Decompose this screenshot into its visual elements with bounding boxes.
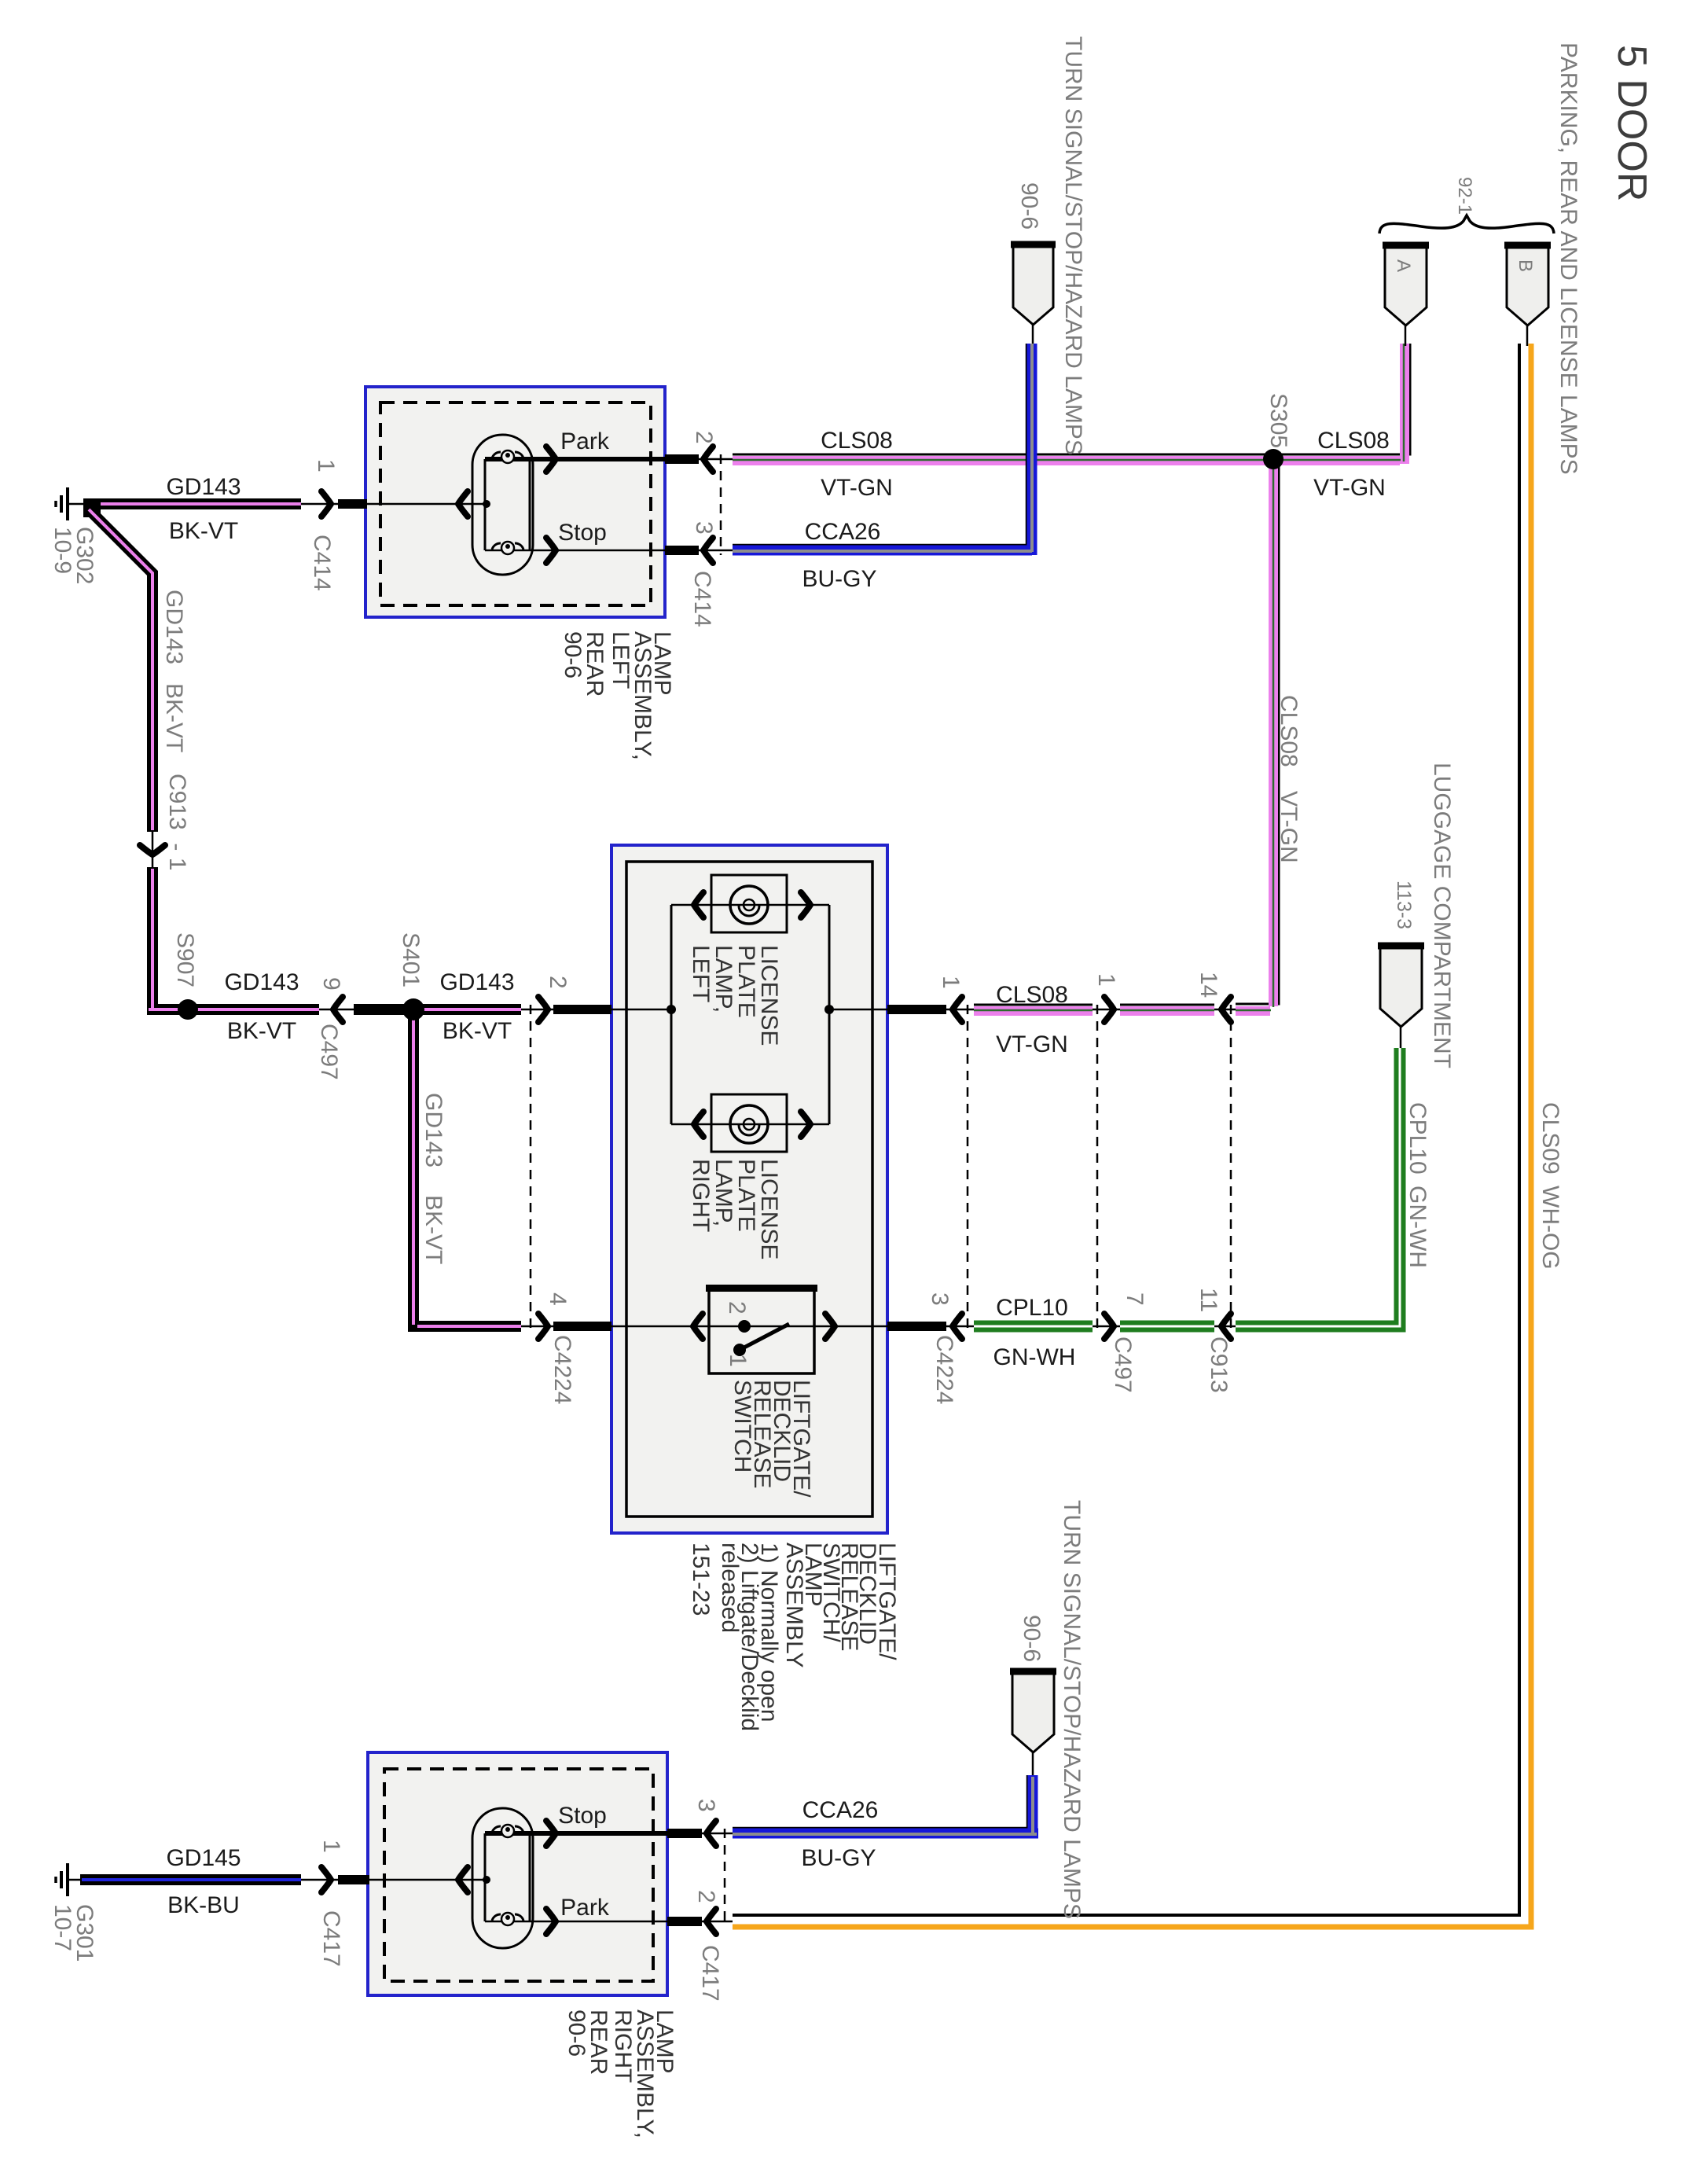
svg-text:C497: C497 <box>316 1024 342 1080</box>
license plate lamp left bulb <box>671 875 829 932</box>
dashed boundary C913 <box>1230 1005 1232 1331</box>
connector A <box>1383 245 1429 346</box>
wire CLS08 VT-GN from liftgate pin 1 to C497 <box>946 1005 1093 1011</box>
svg-text:2: 2 <box>691 431 717 444</box>
svg-text:S907: S907 <box>172 932 198 987</box>
svg-text:WH-OG: WH-OG <box>1537 1186 1563 1270</box>
svg-text:GN-WH: GN-WH <box>993 1344 1076 1370</box>
svg-text:C913: C913 <box>1206 1337 1232 1393</box>
svg-text:1: 1 <box>318 1840 344 1853</box>
svg-text:C4224: C4224 <box>549 1335 575 1404</box>
svg-text:CCA26: CCA26 <box>802 1797 879 1823</box>
lamp1 pin 2 connector C414 <box>665 447 733 472</box>
svg-text:C913 - 1: C913 - 1 <box>164 774 190 870</box>
ground G301 <box>56 1863 82 1896</box>
wire black pigtail C497 pin 9 to S401 <box>354 1004 405 1015</box>
svg-text:CLS08: CLS08 <box>821 428 893 454</box>
svg-text:BU-GY: BU-GY <box>802 566 876 592</box>
wire GD145 BK-BU from G301 to lamp2 pin 1 <box>80 1874 301 1885</box>
svg-text:PARKING, REAR AND LICENSE LAMP: PARKING, REAR AND LICENSE LAMPS <box>1555 42 1581 475</box>
connector 90-6 turn signal bottom <box>1010 1671 1056 1775</box>
splice S305 <box>1263 449 1284 469</box>
lamp2 pin 3 connector C417 <box>667 1821 733 1846</box>
chain arrows C497 C913 bottom row <box>1104 1314 1114 1339</box>
svg-text:C414: C414 <box>309 535 335 591</box>
wire GD143 BK-VT from C913 to S907 and pin 9 C497 <box>149 867 357 1009</box>
liftgate pin 4 <box>538 1314 611 1339</box>
connector B <box>1504 245 1551 346</box>
lamp2 pin 1 connector C417 <box>301 1867 369 1892</box>
svg-text:BK-VT: BK-VT <box>420 1195 446 1264</box>
svg-text:BK-BU: BK-BU <box>167 1892 240 1918</box>
lamp1 pin 1 connector C414 <box>301 491 367 517</box>
svg-text:C417: C417 <box>697 1945 723 2002</box>
svg-text:BK-VT: BK-VT <box>443 1018 512 1044</box>
svg-text:1: 1 <box>938 976 964 989</box>
svg-text:GD145: GD145 <box>166 1845 241 1871</box>
chain arrows C497 C913 top row <box>1104 997 1114 1022</box>
svg-text:113-3: 113-3 <box>1393 881 1415 929</box>
wire GD143 BK-VT diagonal and vertical run to C913 <box>83 498 152 867</box>
lamp2 pin 2 connector C417 <box>667 1909 733 1934</box>
svg-text:CLS09: CLS09 <box>1537 1102 1563 1175</box>
svg-text:CPL10: CPL10 <box>996 1295 1068 1321</box>
svg-text:CLS08: CLS08 <box>1317 428 1390 454</box>
connector C497 pin 9 arrow <box>333 997 343 1022</box>
svg-text:14: 14 <box>1195 972 1221 998</box>
svg-text:TURN SIGNAL/STOP/HAZARD LAMPS: TURN SIGNAL/STOP/HAZARD LAMPS <box>1059 1500 1085 1919</box>
wire CCA26 BU-GY top from lamp1 pin 3 up to connector 90-6 <box>733 344 1032 555</box>
bulb lamp2 dual filament <box>368 1808 667 1948</box>
svg-text:CLS08: CLS08 <box>996 982 1068 1008</box>
svg-text:1: 1 <box>725 1354 751 1367</box>
wire CLS08 VT-GN main horizontal from lamp1 pin 2 to connector A <box>733 344 1410 464</box>
brace 92-1 over connectors A and B <box>1379 215 1554 233</box>
lamp assembly right rear box <box>368 1752 667 1995</box>
liftgate pin 2 <box>538 997 611 1022</box>
svg-text:9: 9 <box>318 977 344 991</box>
svg-text:CPL10: CPL10 <box>1405 1102 1430 1175</box>
license plate lamp right bulb <box>671 1094 829 1152</box>
wire GD143 BK-VT from G302 to C414 pin 1 <box>86 498 301 509</box>
svg-text:1: 1 <box>313 459 339 472</box>
svg-text:BK-VT: BK-VT <box>161 683 187 752</box>
svg-text:92-1: 92-1 <box>1454 177 1475 215</box>
lamp1 pin 3 connector C414 <box>665 538 733 563</box>
wire GN-WH short piece between C913 11 and C497 7 <box>1093 1321 1236 1333</box>
connector 90-6 turn signal top <box>1011 245 1056 344</box>
svg-text:CLS08: CLS08 <box>1276 695 1302 767</box>
svg-text:Park: Park <box>560 1895 610 1921</box>
wire VT-GN short piece between C913 14 and C497 1 <box>1093 1005 1236 1011</box>
lamp assembly left rear box <box>365 387 665 617</box>
svg-text:S305: S305 <box>1265 393 1291 448</box>
svg-text:C4224: C4224 <box>931 1335 957 1404</box>
svg-text:C497: C497 <box>1110 1337 1136 1393</box>
svg-text:BU-GY: BU-GY <box>801 1845 876 1871</box>
wire CLS09 WH-OG from connector B down and left to lamp2 pin 2 <box>733 344 1531 1927</box>
splice S907 <box>178 999 198 1020</box>
svg-text:A: A <box>1393 259 1414 272</box>
svg-text:3: 3 <box>691 521 717 535</box>
dashed boundary C4224 right <box>967 1005 969 1331</box>
svg-text:C414: C414 <box>689 571 715 627</box>
svg-text:BK-VT: BK-VT <box>169 518 238 544</box>
svg-text:GD143: GD143 <box>420 1093 446 1167</box>
svg-text:2: 2 <box>693 1890 719 1903</box>
svg-text:S401: S401 <box>398 932 424 987</box>
svg-text:Stop: Stop <box>558 520 607 546</box>
svg-text:C417: C417 <box>318 1910 344 1967</box>
svg-text:90-6: 90-6 <box>1016 182 1042 230</box>
svg-text:B: B <box>1515 259 1536 272</box>
liftgate decklid release switch <box>611 1285 887 1373</box>
license lamps parallel bus <box>611 905 887 1124</box>
svg-text:5 DOOR: 5 DOOR <box>1609 45 1654 201</box>
svg-text:11: 11 <box>1195 1288 1221 1312</box>
svg-text:VT-GN: VT-GN <box>1276 791 1302 863</box>
splice S401 <box>402 998 424 1020</box>
svg-text:Stop: Stop <box>558 1803 607 1829</box>
svg-text:Park: Park <box>560 428 610 454</box>
liftgate pin 3 <box>887 1314 962 1339</box>
liftgate pin 1 <box>887 997 962 1022</box>
svg-text:4: 4 <box>545 1292 571 1306</box>
dashed connector boundary C414 <box>720 454 722 555</box>
svg-text:VT-GN: VT-GN <box>1313 475 1386 501</box>
svg-text:VT-GN: VT-GN <box>996 1031 1068 1057</box>
ground G302 <box>56 487 88 520</box>
svg-text:GN-WH: GN-WH <box>1405 1186 1430 1268</box>
wire GD143 BK-VT from S401 to liftgate pin 2 <box>422 1004 555 1015</box>
svg-text:7: 7 <box>1122 1292 1148 1306</box>
svg-text:2: 2 <box>724 1301 750 1314</box>
wire CCA26 BU-GY bottom from lamp2 pin 3 up to connector 90-6 <box>733 1775 1038 1834</box>
svg-text:1: 1 <box>1093 973 1119 987</box>
svg-text:GD143: GD143 <box>166 474 241 500</box>
svg-text:VT-GN: VT-GN <box>821 475 893 501</box>
svg-text:90-6: 90-6 <box>1019 1615 1045 1662</box>
svg-text:GD143: GD143 <box>161 590 187 664</box>
liftgate decklid release switch lamp assembly box <box>611 845 887 1533</box>
bulb lamp1 dual filament <box>365 435 665 575</box>
wire CPL10 GN-WH from liftgate pin 3 to C497 <box>946 1321 1093 1333</box>
svg-text:TURN SIGNAL/STOP/HAZARD LAMPS: TURN SIGNAL/STOP/HAZARD LAMPS <box>1060 36 1086 455</box>
dashed connector boundary C417 <box>724 1829 726 1926</box>
svg-text:CCA26: CCA26 <box>805 519 881 545</box>
dashed boundary C497 <box>1096 1005 1099 1331</box>
svg-text:BK-VT: BK-VT <box>227 1018 296 1044</box>
wire CPL10 GN-WH from luggage connector down to C913 pin 11 <box>1236 1048 1400 1326</box>
dashed boundary C4224 left <box>530 1005 532 1331</box>
wire GD143 BK-VT from S401 down to liftgate pin 4 <box>413 1015 555 1326</box>
svg-text:3: 3 <box>693 1799 719 1812</box>
connector 113-3 luggage compartment <box>1378 946 1424 1048</box>
svg-text:GD143: GD143 <box>439 969 514 995</box>
connector C913 inline on vertical BK-VT <box>140 845 165 855</box>
svg-text:GD143: GD143 <box>224 969 299 995</box>
svg-text:2: 2 <box>545 976 571 989</box>
svg-text:3: 3 <box>927 1292 953 1306</box>
wire CLS08 VT-GN vertical from S305 down to C913 pin 14 row <box>1236 464 1279 1011</box>
svg-text:LUGGAGE COMPARTMENT: LUGGAGE COMPARTMENT <box>1429 763 1455 1068</box>
